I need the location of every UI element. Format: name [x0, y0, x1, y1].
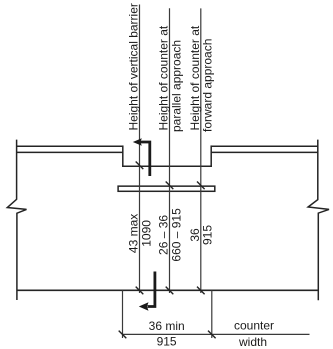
- bold arrow pointing at vertical barrier: [133, 138, 150, 176]
- tick at parallel line on shelf: [166, 182, 174, 190]
- svg-text:parallel approach: parallel approach: [169, 40, 183, 132]
- svg-text:36 min: 36 min: [149, 319, 185, 333]
- tick at barrier line on lowered counter: [136, 162, 144, 170]
- svg-text:660 – 915: 660 – 915: [169, 208, 183, 262]
- svg-text:width: width: [238, 335, 267, 349]
- svg-text:915: 915: [157, 335, 177, 349]
- left wall line with break symbol: [7, 140, 26, 300]
- svg-text:forward approach: forward approach: [201, 39, 215, 132]
- svg-text:Height of vertical barrier: Height of vertical barrier: [127, 3, 141, 130]
- bold arrow pointing at 36 min clear floor space: [139, 272, 155, 311]
- right step of lowered counter opening: [210, 145, 212, 167]
- extension line: height of counter at parallel approach: [169, 8, 171, 293]
- right wall line with break symbol: [308, 140, 329, 301]
- counter top left segment (double line): [17, 146, 123, 152]
- svg-text:1090: 1090: [139, 220, 153, 247]
- tick at forward line on floor: [197, 287, 205, 295]
- counter top right segment (double line): [211, 146, 318, 152]
- tick at forward line on shelf: [197, 182, 205, 190]
- floor line: [17, 289, 318, 291]
- tick at 36 min dimension right: [208, 331, 216, 339]
- lowered counter surface line: [122, 165, 212, 167]
- extension line: 36 min left: [122, 290, 124, 338]
- svg-text:counter: counter: [234, 319, 274, 333]
- tick at 36 min dimension left: [119, 331, 127, 339]
- tick at parallel line on floor: [166, 287, 174, 295]
- counter shelf bar: [118, 186, 215, 191]
- extension line: height of vertical barrier: [139, 5, 141, 294]
- extension line: 36 min right: [211, 290, 213, 338]
- left step of lowered counter opening: [122, 145, 124, 167]
- svg-text:915: 915: [201, 225, 215, 245]
- extension line: height of counter at forward approach: [200, 8, 202, 293]
- tick at barrier line on floor: [136, 287, 144, 295]
- dimension line: 36 min / counter width: [123, 333, 310, 335]
